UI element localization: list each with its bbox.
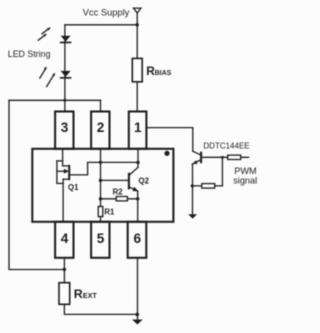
- pin 6 box: [128, 222, 147, 258]
- svg-text:LED String: LED String: [8, 49, 51, 59]
- node junction dot at LED line: [63, 99, 66, 102]
- svg-text:1: 1: [134, 120, 142, 135]
- pin 1 box: [129, 112, 147, 149]
- svg-text:Q1: Q1: [68, 183, 79, 192]
- node dot emitter junction: [191, 184, 194, 187]
- svg-text:EXT: EXT: [83, 291, 98, 300]
- pin 2 box: [91, 112, 109, 149]
- IC pin1 marker dot: [164, 151, 169, 156]
- pin 5 box: [91, 222, 109, 258]
- node dot Rext junction: [63, 268, 66, 271]
- wire base-emitter resistor branch: [221, 157, 223, 186]
- wire pin4 lead down: [63, 258, 65, 283]
- ground (arrow style): [132, 320, 143, 325]
- wire left feedback loop: [9, 100, 64, 269]
- svg-text:Vcc Supply: Vcc Supply: [83, 8, 130, 18]
- transistor Q3 DDTC144EE: [193, 151, 201, 155]
- pin 3 box: [55, 112, 73, 149]
- wire LED string vertical: [64, 25, 66, 112]
- svg-text:signal: signal: [233, 176, 257, 186]
- wire Q1 source to collector node: [69, 162, 138, 175]
- svg-text:2: 2: [97, 120, 105, 135]
- wire Vcc stem down to Rbias and pin 1: [136, 12, 138, 111]
- wire base lead with series resistor: [202, 156, 249, 158]
- transistor Q2 (internal NPN): [137, 149, 139, 168]
- node Vcc junction dot: [136, 23, 139, 26]
- transistor Q1 (internal MOSFET): [62, 149, 64, 166]
- wire pin2 column vertical (pin2 to R1 to pin5): [100, 149, 102, 222]
- svg-text:4: 4: [61, 231, 69, 246]
- wire junction horizontal above pins: [9, 99, 101, 101]
- LED D1: [61, 36, 71, 42]
- svg-text:R: R: [74, 287, 83, 301]
- wire pin2 top lead: [100, 100, 102, 111]
- IC body: [32, 149, 173, 222]
- resistor (base-emitter): [202, 184, 215, 189]
- svg-text:R1: R1: [104, 208, 115, 217]
- svg-text:DDTC144EE: DDTC144EE: [203, 141, 249, 150]
- ground (arrow style, Q3 emitter): [188, 214, 197, 218]
- svg-text:Q2: Q2: [139, 176, 150, 185]
- wire Rext bottom to ground: [64, 304, 137, 314]
- resistor R2: [101, 198, 138, 200]
- node dot Q2 base: [99, 179, 102, 182]
- wire pin1 to Q3 collector: [146, 128, 192, 152]
- wire top horizontal Vcc to LED string: [65, 24, 137, 26]
- svg-text:BIAS: BIAS: [155, 70, 172, 77]
- svg-text:PWM: PWM: [234, 166, 256, 176]
- svg-text:R2: R2: [113, 187, 124, 196]
- LED D1 light rays: [42, 28, 50, 34]
- svg-text:3: 3: [61, 120, 69, 135]
- svg-text:6: 6: [134, 231, 142, 246]
- LED D2 light rays: [40, 68, 46, 78]
- wire pin6 lead down: [137, 258, 139, 320]
- Vcc supply terminal symbol: [134, 8, 141, 13]
- node dot Q2 emitter / R2 right: [136, 197, 139, 200]
- resistor (base series): [228, 155, 241, 159]
- resistor Rext: [59, 283, 70, 305]
- resistor Rbias: [132, 58, 142, 81]
- resistor R1: [98, 207, 103, 217]
- pin 4 box: [55, 222, 73, 258]
- node dot crossing: [99, 161, 102, 164]
- node dot R2 left: [99, 197, 102, 200]
- svg-text:5: 5: [97, 231, 105, 246]
- LED D2: [61, 71, 71, 77]
